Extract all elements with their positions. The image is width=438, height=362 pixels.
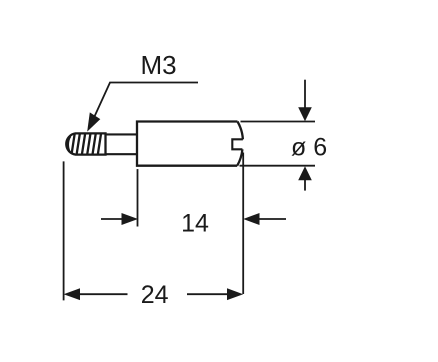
body cylinder (137, 122, 243, 166)
svg-text:24: 24 (141, 281, 169, 309)
svg-text:M3: M3 (140, 50, 176, 80)
thread M3 (hatched stud with rounded cap) (66, 133, 105, 154)
value 24 (141, 281, 169, 309)
label M3 (140, 50, 176, 80)
shank (106, 134, 138, 154)
extension line left end (x=63.6) (63, 161, 65, 300)
svg-text:ø 6: ø 6 (291, 133, 327, 161)
dimension 14 left arrow (101, 213, 138, 225)
svg-text:14: 14 (181, 210, 209, 238)
extension line bottom (o6) (240, 165, 316, 167)
dimension o6 lower arrow (298, 166, 312, 190)
dimension 14 right arrow (243, 213, 286, 225)
dimension 24 line left (64, 288, 128, 300)
extension line body right (x=243.2) (242, 153, 244, 295)
dimension o6 upper arrow (298, 80, 312, 122)
slot in end face (232, 139, 243, 149)
leader line M3 (87, 83, 198, 132)
value o 6 (291, 133, 327, 161)
dimension 24 line right (187, 288, 243, 300)
extension line body left (x=137.5) (137, 169, 139, 226)
value 14 (181, 210, 209, 238)
extension line top (o6) (241, 121, 316, 123)
